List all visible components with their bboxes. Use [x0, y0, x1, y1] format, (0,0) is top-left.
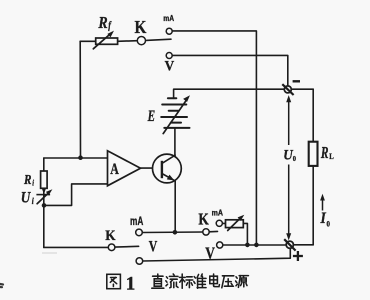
svg-text:0: 0 [293, 154, 297, 163]
svg-text:mA: mA [212, 208, 224, 218]
svg-text:K: K [135, 17, 147, 37]
svg-text:0: 0 [327, 219, 331, 229]
svg-text:mA: mA [130, 216, 143, 229]
svg-text:R: R [98, 14, 108, 33]
svg-text:K: K [198, 210, 208, 229]
svg-text:1: 1 [126, 273, 136, 294]
svg-text:A: A [110, 160, 119, 178]
svg-text:U: U [21, 189, 32, 206]
svg-text:R: R [23, 172, 31, 187]
svg-text:mA: mA [163, 13, 174, 23]
svg-text:V: V [205, 244, 215, 263]
svg-text:i: i [32, 179, 34, 188]
svg-text:V: V [165, 58, 175, 74]
svg-text:V: V [149, 239, 157, 256]
svg-text:E: E [147, 107, 155, 124]
svg-text:R: R [320, 144, 329, 163]
svg-text:L: L [329, 152, 334, 162]
svg-text:K: K [105, 228, 116, 244]
svg-text:U: U [283, 147, 293, 164]
